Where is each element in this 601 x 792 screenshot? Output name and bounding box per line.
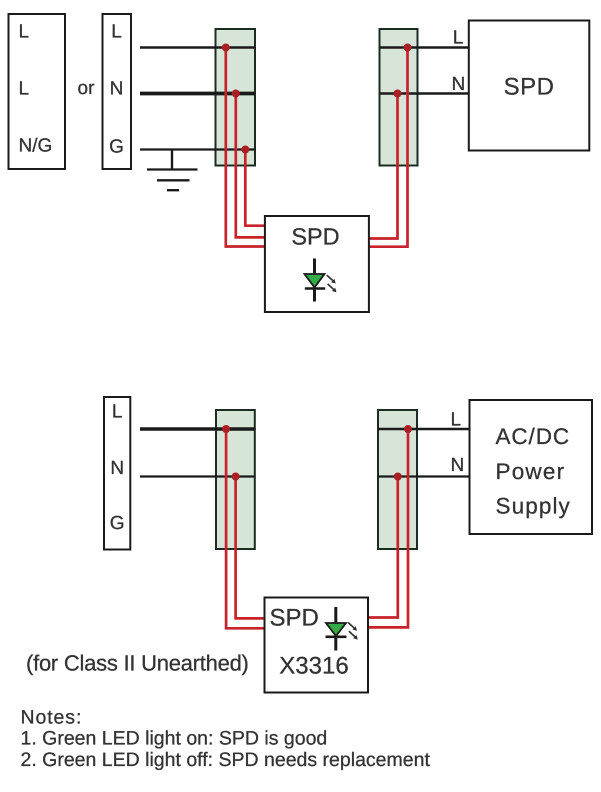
svg-text:L: L bbox=[453, 27, 464, 48]
svg-text:N: N bbox=[110, 458, 124, 479]
svg-text:G: G bbox=[110, 513, 125, 534]
svg-text:G: G bbox=[109, 137, 124, 158]
svg-text:Notes:: Notes: bbox=[21, 706, 83, 728]
svg-text:or: or bbox=[78, 78, 96, 99]
svg-text:SPD: SPD bbox=[504, 74, 555, 101]
svg-text:X3316: X3316 bbox=[279, 653, 348, 680]
svg-text:N/G: N/G bbox=[19, 136, 53, 157]
svg-text:N: N bbox=[451, 455, 465, 476]
svg-text:L: L bbox=[111, 22, 122, 43]
svg-text:1. Green LED light on: SPD is: 1. Green LED light on: SPD is good bbox=[21, 728, 328, 750]
svg-text:Supply: Supply bbox=[496, 494, 571, 519]
svg-text:(for Class II Unearthed): (for Class II Unearthed) bbox=[26, 651, 249, 676]
svg-text:2. Green LED light off: SPD ne: 2. Green LED light off: SPD needs replac… bbox=[21, 749, 431, 771]
svg-text:Power: Power bbox=[496, 459, 566, 484]
svg-text:SPD: SPD bbox=[291, 224, 339, 250]
svg-text:N: N bbox=[452, 74, 466, 95]
svg-text:L: L bbox=[451, 410, 462, 431]
svg-text:SPD: SPD bbox=[270, 604, 319, 631]
svg-text:N: N bbox=[110, 79, 124, 100]
svg-text:L: L bbox=[19, 22, 30, 43]
svg-text:L: L bbox=[19, 79, 30, 100]
svg-text:L: L bbox=[112, 402, 123, 423]
svg-text:AC/DC: AC/DC bbox=[496, 424, 571, 449]
